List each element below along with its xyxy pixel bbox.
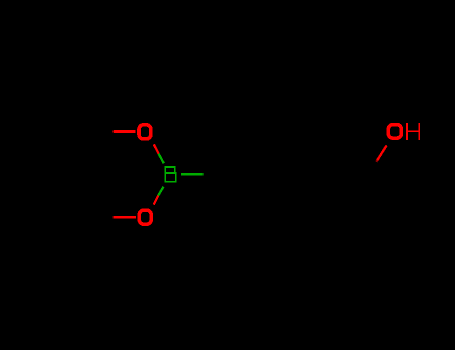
bond C5-C6 pinacol C-C (black, invisible) — [91, 132, 93, 218]
bond B-C1 boron half (green) — [181, 173, 203, 175]
bond C6-CH3 methyl c (black, invisible) — [50, 217, 93, 235]
benzene ring (black, invisible) — [224, 131, 324, 218]
bond O2-B oxygen half (red) — [154, 196, 159, 205]
bond O1-B oxygen half (red) — [154, 144, 159, 153]
atom H (hydroxyl hydrogen label) — [407, 123, 419, 140]
atom O3 (hydroxyl oxygen label) — [388, 125, 401, 139]
bond O1-C5 carbon half (black, invisible) — [93, 130, 114, 132]
bond C7-O3 carbon half (black, invisible) — [368, 160, 377, 175]
bond O1-C5 oxygen half (red) — [114, 130, 135, 133]
atom O1 (top oxygen label) — [139, 125, 151, 139]
bond O2-B boron half (green) — [158, 187, 163, 196]
bond O2-C6 carbon half (black, invisible) — [93, 216, 115, 218]
bond C5-CH3 methyl a (black, invisible) — [50, 114, 93, 132]
bond B-C1 carbon half (black, invisible) — [202, 173, 224, 175]
atom B (boron label) — [165, 167, 176, 182]
bond O1-B boron half (green) — [159, 154, 164, 164]
atom O2 (bottom oxygen label) — [139, 210, 151, 224]
bond C7-O3 oxygen half (red) — [377, 145, 386, 160]
bond C4-C7 benzylic (black, invisible) — [324, 173, 368, 176]
bond C6-CH3 methyl d (black, invisible) — [75, 217, 93, 265]
bond C5-CH3 methyl b (black, invisible) — [75, 84, 93, 132]
bond O2-C6 oxygen half (red) — [114, 216, 136, 219]
